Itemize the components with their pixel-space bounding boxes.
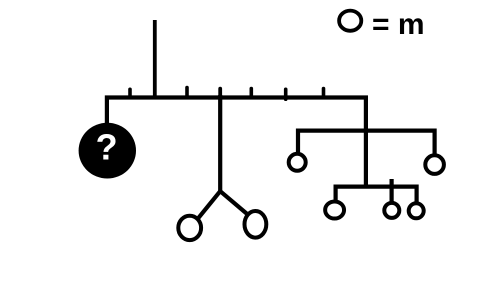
label: question mark — [96, 127, 118, 168]
wire: generation line 2 with end drops — [336, 187, 417, 202]
wire: middle descender to V junction — [218, 95, 222, 193]
svg-text:?: ? — [96, 127, 118, 168]
circle: V right individual — [245, 211, 267, 238]
tick 6: junction stub above line — [218, 89, 222, 95]
circle: row3 middle individual — [384, 203, 399, 218]
wire: generation line 1 with end drops — [298, 131, 435, 154]
filled circle: unknown individual — [79, 123, 136, 179]
wire: V left diagonal — [197, 191, 220, 219]
circle: row3 left individual — [325, 201, 344, 218]
circle: V left individual — [178, 216, 201, 240]
tick 2 — [185, 88, 189, 98]
circle: row2 right individual — [425, 155, 444, 174]
circle: row3 right individual — [409, 203, 424, 218]
tick 3 — [250, 89, 254, 98]
tick 5 — [322, 89, 326, 98]
wire: top vertical stem — [153, 20, 157, 98]
wire: main sibship line with left and right drops — [107, 98, 366, 188]
legend circle — [339, 11, 361, 31]
tick 4 — [284, 89, 288, 99]
wire: stub crossing line 2 — [390, 179, 394, 202]
legend text: = m — [372, 8, 425, 41]
tick 1 — [128, 89, 132, 97]
circle: row2 left individual — [289, 154, 306, 171]
wire: V right diagonal — [220, 191, 247, 214]
svg-text:= m: = m — [372, 8, 425, 41]
